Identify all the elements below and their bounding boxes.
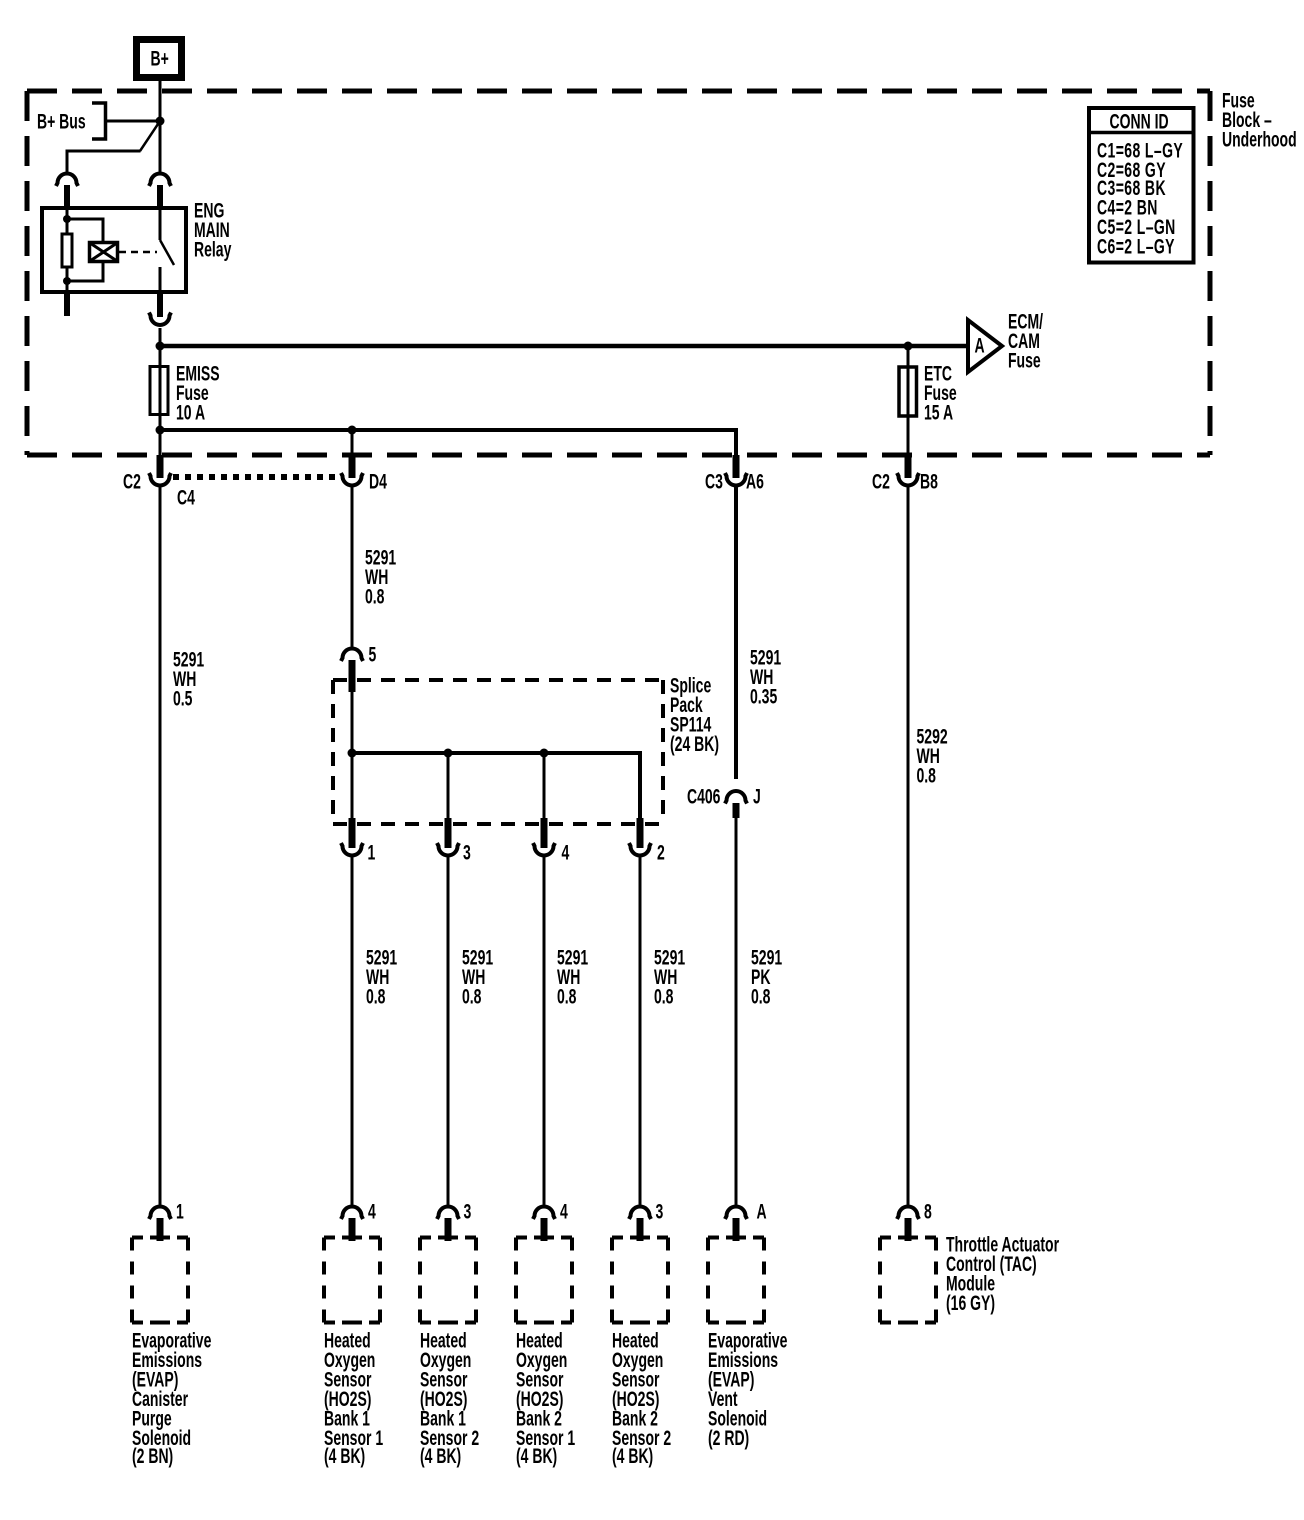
label: wire 5291 WH 0.5 label xyxy=(173,650,204,708)
terminal stub into relay (coil) xyxy=(64,185,70,206)
wire 5291 WH 0.5: C2 down to EVAP purge solenoid xyxy=(159,487,162,1205)
terminal stub into EVAP canister purge solenoid xyxy=(157,1218,164,1241)
label: CONN ID header xyxy=(1110,112,1169,131)
CONN ID table header separator xyxy=(1089,131,1194,135)
connector: HO2S bank 2 sensor 2 pin 3 (female cap) xyxy=(629,1207,651,1220)
wire 5291 WH 0.8 to HO2S from splice pin 4 xyxy=(543,857,546,1205)
terminal stub into splice pack xyxy=(349,660,356,692)
label: fuse F2 ETC value xyxy=(924,364,957,422)
terminal stub through fuse block border at D4 xyxy=(349,455,356,478)
relay coil ground stub below relay xyxy=(64,294,70,316)
wire: splice bus below EMISS fuse xyxy=(160,430,736,455)
splice pack SP114 dashed box: left xyxy=(331,680,335,824)
connector: TAC module pin 8 (female cap) xyxy=(897,1207,919,1220)
splice pack SP114 dashed box: top xyxy=(333,678,663,682)
connector C2 pin (female cup) xyxy=(149,473,171,486)
B+ bus bracket symbol xyxy=(92,103,106,139)
label: wire 5291 WH 0.35 label xyxy=(750,648,781,706)
label: splice pin 5 number xyxy=(369,645,377,664)
label: TAC module name xyxy=(946,1235,1059,1312)
terminal stub into HO2S bank 2 sensor 1 xyxy=(541,1218,548,1241)
terminal stub through fuse block border at C2 (left) xyxy=(157,455,164,478)
wire 5292 WH 0.8: B8 down to TAC module xyxy=(907,487,910,1205)
label: splice pack SP114 name xyxy=(670,676,719,753)
connector: splice pack pin 2 (female cup) xyxy=(629,843,651,856)
connector: HO2S bank 1 sensor 2 pin 3 (female cap) xyxy=(437,1207,459,1220)
fuse F1 EMISS 10A body xyxy=(150,367,168,415)
connector: EVAP vent solenoid pin A (female cap) xyxy=(725,1207,747,1220)
label: component pin 4 number (B1S1) xyxy=(368,1202,376,1221)
ECM/CAM fuse feed triangle A xyxy=(968,320,1002,372)
label: connector D4 xyxy=(369,472,387,491)
component box: HO2S bank 1 sensor 1 xyxy=(324,1236,380,1240)
connector: splice pack pin 1 (female cup) xyxy=(341,843,363,856)
relay coil L1 (box with X) xyxy=(90,243,118,262)
wire: splice to pin 1 xyxy=(351,753,354,818)
component box: TAC module xyxy=(880,1236,936,1240)
label: fuse F1 EMISS value xyxy=(176,364,220,422)
label: B+ Bus xyxy=(37,112,86,131)
junction dot: below EMISS fuse xyxy=(156,426,165,435)
label: triangle A letter xyxy=(975,336,985,355)
terminal stub out of splice pack pin 3 xyxy=(445,818,452,848)
relay switch blade xyxy=(160,240,174,265)
component box: EVAP canister purge solenoid xyxy=(132,1236,188,1240)
wire: relay output to main bus xyxy=(159,328,162,346)
wire: D4 branch down xyxy=(351,430,354,455)
label: EVAP vent solenoid name xyxy=(708,1331,787,1447)
junction dot: splice pin 4 xyxy=(540,749,549,758)
label: splice pin 3 number xyxy=(463,843,471,862)
wire: B+ box down to B+ bus junction xyxy=(159,81,162,121)
connector C4 dotted interface line xyxy=(173,474,344,480)
wire: pin 5 into splice bus xyxy=(351,692,354,753)
label: relay K1 name xyxy=(194,201,231,259)
relay output terminal stub xyxy=(157,294,163,317)
label: HO2S B2S1 name xyxy=(516,1331,575,1467)
label: component pin 8 number xyxy=(924,1202,932,1221)
CONN ID table box xyxy=(1089,108,1194,263)
terminal stub into HO2S bank 1 sensor 2 xyxy=(445,1218,452,1241)
label: CONN ID rows xyxy=(1097,141,1183,255)
terminal stub through fuse block border at C3/A6 xyxy=(733,455,740,478)
junction dot: splice pin 1 xyxy=(348,749,357,758)
splice pack SP114 dashed box: bottom xyxy=(333,822,663,826)
label: splice pin 4 number xyxy=(562,843,570,862)
connector: relay switch input terminal (female cap) xyxy=(149,174,171,187)
junction dot: splice pin 3 xyxy=(444,749,453,758)
label: ECM/CAM fuse name xyxy=(1008,312,1043,370)
relay K1 ENG MAIN relay box xyxy=(42,208,186,292)
label: component pin 1 number xyxy=(176,1202,184,1221)
fuse block underhood dashed border: top xyxy=(27,89,1210,94)
label: connector C4 name xyxy=(177,488,195,507)
connector D4 pin (female cup) xyxy=(341,473,363,486)
wire: splice to pin 3 xyxy=(447,753,450,818)
terminal stub out of splice pack pin 2 xyxy=(637,818,644,848)
junction dot: relay coil top node xyxy=(63,215,71,223)
splice bus SP114 xyxy=(352,753,640,818)
label: connector C2 left xyxy=(123,472,141,491)
wire: coil feed horizontal and down xyxy=(67,151,141,172)
label: pin A6 xyxy=(746,472,764,491)
label: component pin 3 number (B1S2) xyxy=(464,1202,472,1221)
junction dot: B+ bus node xyxy=(156,117,165,126)
wire: B+ bus bracket to junction xyxy=(106,120,161,123)
terminal stub below C406 xyxy=(733,803,740,818)
resistor: relay coil suppression resistor xyxy=(62,234,72,267)
fuse block underhood dashed border: left xyxy=(25,91,30,455)
connector: HO2S bank 2 sensor 1 pin 4 (female cap) xyxy=(533,1207,555,1220)
terminal stub into relay (switch) xyxy=(157,185,163,206)
connector C406 pin J (female cap) xyxy=(725,791,747,804)
connector: EVAP canister purge solenoid pin 1 (female cap) xyxy=(149,1207,171,1220)
terminal stub out of splice pack pin 1 xyxy=(349,818,356,848)
wire 5291 WH 0.35: A6 down to C406 xyxy=(734,487,738,779)
terminal stub into TAC module xyxy=(905,1218,912,1241)
label: component pin 3 number (B2S2) xyxy=(656,1202,664,1221)
terminal stub through fuse block border at C2/B8 xyxy=(905,455,912,478)
label: pin J xyxy=(753,787,761,806)
wire 5291 WH 0.8: D4 down to splice pack pin 5 xyxy=(351,487,354,647)
label: wire 5292 WH 0.8 label xyxy=(917,727,948,785)
connector: relay output terminal (female cup) xyxy=(149,313,171,326)
relay switch: output contact wire xyxy=(159,267,162,294)
label: B+ box text xyxy=(151,49,169,68)
label: wire 5291 PK 0.8 label xyxy=(751,948,782,1006)
wire: main bus to ECM/CAM fuse xyxy=(160,344,968,349)
relay internal wire: resistor bottom xyxy=(66,267,69,294)
label: splice pin 1 number xyxy=(368,843,376,862)
label: connector C3 xyxy=(705,472,723,491)
relay switch: fixed contact wire xyxy=(159,206,162,240)
label: wire 5291 WH 0.8 label (D4) xyxy=(365,548,396,606)
terminal stub out of splice pack pin 4 xyxy=(541,818,548,848)
connector: HO2S bank 1 sensor 1 pin 4 (female cap) xyxy=(341,1207,363,1220)
label: wire 5291 WH 0.8 label (sensor 3) xyxy=(557,948,588,1006)
relay feed switch diagonal xyxy=(140,124,158,151)
label: HO2S B2S2 name xyxy=(612,1331,671,1467)
connector: splice pack pin 4 (female cup) xyxy=(533,843,555,856)
connector: splice pack pin 5 (female cap) xyxy=(341,649,363,662)
relay internal wire: coil branch upper link xyxy=(67,219,103,241)
relay internal wire: coil branch top xyxy=(66,206,69,234)
wire 5291 WH 0.8 to HO2S from splice pin 3 xyxy=(447,857,450,1205)
label: HO2S B1S2 name xyxy=(420,1331,479,1467)
label: EVAP canister purge solenoid name xyxy=(132,1331,211,1467)
label: wire 5291 WH 0.8 label (sensor 2) xyxy=(462,948,493,1006)
connector C3 pin A6 (female cup) xyxy=(725,473,747,486)
wire: ETC fuse drop xyxy=(907,346,910,455)
label: connector C406 name xyxy=(687,787,720,806)
junction dot: D4 branch node xyxy=(348,426,357,435)
splice pack SP114 dashed box: right xyxy=(661,680,665,824)
connector: splice pack pin 3 (female cup) xyxy=(437,843,459,856)
fuse F2 ETC 15A body xyxy=(899,367,917,416)
component box: HO2S bank 1 sensor 2 xyxy=(420,1236,476,1240)
label: wire 5291 WH 0.8 label (sensor 1) xyxy=(366,948,397,1006)
label: fuse block name xyxy=(1222,91,1297,149)
relay internal wire: coil branch lower link xyxy=(67,263,103,281)
label: wire 5291 WH 0.8 label (sensor 4) xyxy=(654,948,685,1006)
terminal stub into HO2S bank 1 sensor 1 xyxy=(349,1218,356,1241)
connector C2 pin B8 (female cup) xyxy=(897,473,919,486)
label: pin B8 xyxy=(920,472,938,491)
wire 5291 WH 0.8 to HO2S from splice pin 1 xyxy=(351,857,354,1205)
junction dot: bus left node xyxy=(156,342,165,351)
label: HO2S B1S1 name xyxy=(324,1331,383,1467)
fuse block underhood dashed border: bottom xyxy=(27,453,1210,458)
wire 5291 PK 0.8: C406 down to EVAP vent solenoid xyxy=(735,818,738,1205)
label: component pin A number xyxy=(757,1202,767,1221)
wire 5291 WH 0.8 to HO2S from splice pin 2 xyxy=(639,857,642,1205)
junction dot: relay coil bottom node xyxy=(63,277,71,285)
fuse block underhood dashed border: right xyxy=(1208,91,1213,455)
junction dot: bus node above ETC fuse xyxy=(904,342,913,351)
connector: relay coil input terminal (female cap) xyxy=(56,174,78,187)
label: component pin 4 number (B2S1) xyxy=(560,1202,568,1221)
terminal stub into HO2S bank 2 sensor 2 xyxy=(637,1218,644,1241)
label: connector C2 right xyxy=(872,472,890,491)
terminal stub into EVAP vent solenoid xyxy=(733,1218,740,1241)
component box: HO2S bank 2 sensor 2 xyxy=(612,1236,668,1240)
wire: splice to pin 4 xyxy=(543,753,546,818)
component box: EVAP vent solenoid xyxy=(708,1236,764,1240)
label: splice pin 2 number xyxy=(657,843,665,862)
B+ battery feed box xyxy=(137,40,182,78)
wire: through EMISS fuse down xyxy=(159,346,162,455)
relay actuation dashed link xyxy=(119,251,157,254)
wire: junction down to relay switch input connector xyxy=(159,121,162,172)
component box: HO2S bank 2 sensor 1 xyxy=(516,1236,572,1240)
